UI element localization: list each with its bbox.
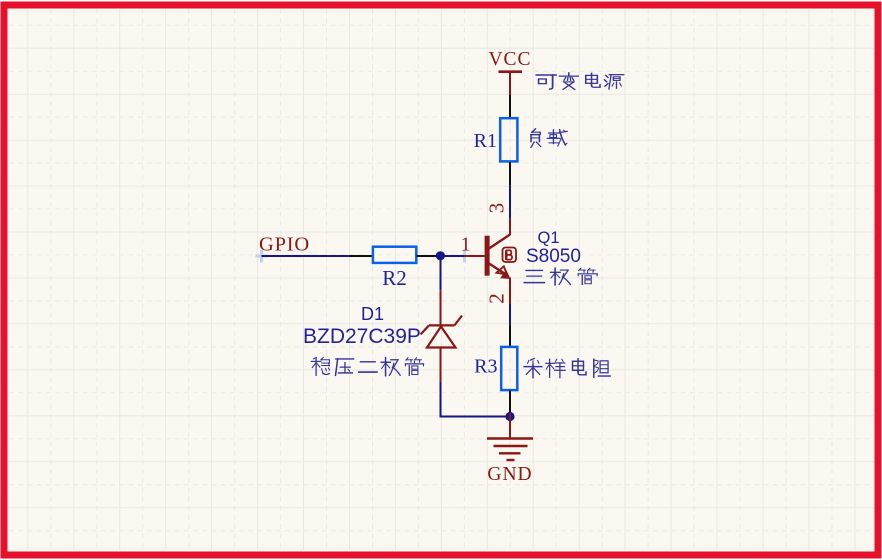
svg-text:R2: R2 [382, 266, 407, 290]
zener diode D1 [421, 290, 462, 382]
svg-text:BZD27C39P: BZD27C39P [303, 325, 421, 348]
svg-text:3: 3 [485, 203, 509, 214]
resistor R1 [474, 95, 518, 186]
wire junction to Q1 base [439, 255, 465, 257]
svg-text:2: 2 [485, 293, 509, 304]
connection cross at GPIO wire end [256, 250, 269, 263]
label 采样电阻 [524, 358, 610, 377]
svg-text:R1: R1 [474, 130, 497, 152]
svg-text:GND: GND [487, 464, 532, 485]
resistor R3 [474, 324, 517, 413]
label 稳压二极管 [311, 357, 423, 375]
svg-text:1: 1 [461, 234, 471, 256]
label 可变电源 [536, 73, 623, 90]
wire Q1 emitter to R3 [509, 304, 511, 324]
junction node at ground rail [505, 412, 514, 421]
resistor R2 [349, 247, 439, 290]
svg-text:GPIO: GPIO [259, 234, 310, 256]
svg-text:D1: D1 [361, 304, 384, 324]
power symbol VCC [488, 49, 531, 95]
wire GPIO to R2 [262, 255, 349, 257]
wire junction down to D1 [440, 256, 442, 290]
wire D1 to ground rail [441, 382, 511, 417]
Q1 base marking B [503, 248, 517, 263]
svg-text:VCC: VCC [488, 49, 531, 70]
connection cross at Q1 pin 1 [463, 250, 466, 263]
svg-text:Q1: Q1 [538, 229, 560, 247]
junction node at R2/Q1 base [436, 251, 445, 260]
label 负载 [531, 129, 567, 147]
svg-text:R3: R3 [474, 356, 497, 378]
wire R1 to Q1 collector [509, 186, 511, 219]
ground symbol GND [487, 413, 533, 485]
label 三极管 [524, 268, 597, 285]
svg-text:S8050: S8050 [526, 246, 581, 267]
transistor Q1 [465, 219, 511, 304]
